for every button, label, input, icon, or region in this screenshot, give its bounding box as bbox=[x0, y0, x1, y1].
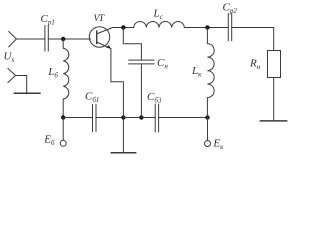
node Cn bottom junction bbox=[139, 115, 143, 119]
svg-text:Rн: Rн bbox=[249, 57, 261, 71]
inductor Lb bbox=[63, 39, 69, 118]
node base (junction dot) bbox=[61, 37, 65, 41]
svg-text:Cр1: Cр1 bbox=[41, 13, 55, 27]
transistor VT emitter arrow bbox=[106, 45, 111, 48]
svg-text:Lс: Lс bbox=[153, 7, 164, 21]
svg-text:Eб: Eб bbox=[43, 133, 55, 147]
capacitor Cb3 bbox=[155, 104, 158, 132]
node Lk bottom junction bbox=[205, 115, 209, 119]
resistor Rn bbox=[268, 51, 281, 78]
ground left bbox=[14, 92, 40, 94]
node emitter-ground junction bbox=[121, 115, 125, 119]
wire bottom rail 1 bbox=[63, 117, 92, 119]
wire Cp2 to Rn bbox=[232, 28, 274, 51]
input terminal arrow bottom bbox=[8, 68, 16, 82]
terminal Ek bbox=[205, 141, 211, 147]
transistor VT base bar bbox=[96, 31, 98, 44]
wire emitter down bbox=[110, 49, 112, 82]
inductor Lk bbox=[207, 28, 214, 118]
wire Cn to bottom rail bbox=[140, 64, 142, 118]
ground right bbox=[260, 120, 287, 122]
wire bottom rail 3 bbox=[123, 117, 141, 119]
wire Eb junction down bbox=[62, 118, 64, 141]
wire bottom rail 5 bbox=[159, 117, 208, 119]
ground middle bbox=[111, 152, 136, 154]
capacitor Cn bbox=[129, 60, 155, 64]
svg-text:Eк: Eк bbox=[212, 137, 224, 151]
wire Lc to Lk node bbox=[184, 27, 228, 29]
svg-text:Lк: Lк bbox=[191, 65, 202, 79]
wire Rn to ground bbox=[273, 78, 275, 121]
wire input bottom to ground bbox=[16, 76, 27, 94]
inductor Lc bbox=[134, 22, 185, 28]
svg-text:Cб1: Cб1 bbox=[85, 90, 99, 104]
transistor VT circle bbox=[89, 27, 109, 47]
svg-text:Cб3: Cб3 bbox=[147, 91, 162, 105]
capacitor Cp2 bbox=[228, 13, 231, 40]
wire top rail collector bbox=[113, 27, 134, 29]
input terminal arrow top bbox=[9, 32, 17, 47]
wire bottom rail 2 bbox=[96, 117, 123, 119]
terminal Eb bbox=[60, 140, 66, 146]
node collector (junction dot) bbox=[121, 25, 125, 29]
svg-text:Lб: Lб bbox=[47, 66, 58, 80]
capacitor Cb1 bbox=[93, 105, 97, 132]
wire base node to transistor base bbox=[63, 38, 90, 40]
node Eb junction bbox=[61, 115, 65, 119]
wire ground stem middle bbox=[122, 118, 124, 153]
capacitor Cp1 bbox=[45, 25, 48, 51]
wire Cp1 to base node bbox=[48, 38, 63, 40]
wire input to Cp1 bbox=[16, 38, 45, 40]
transistor VT collector lead bbox=[97, 28, 113, 34]
svg-text:Cр2: Cр2 bbox=[223, 2, 238, 16]
svg-text:VT: VT bbox=[94, 14, 105, 24]
node Lk top (junction dot) bbox=[205, 25, 209, 29]
wire bottom rail 4 bbox=[141, 117, 155, 119]
svg-text:Cн: Cн bbox=[157, 57, 168, 71]
wire emitter jog bbox=[111, 82, 124, 118]
transistor VT emitter lead bbox=[97, 42, 111, 49]
wire Ek junction down bbox=[207, 118, 209, 141]
wire Cn branch bbox=[123, 28, 141, 61]
svg-text:Us: Us bbox=[4, 51, 15, 65]
